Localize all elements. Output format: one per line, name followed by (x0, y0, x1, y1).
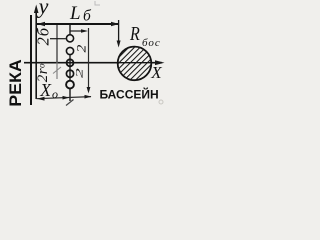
svg-text:б: б (83, 7, 92, 24)
svg-text:Х: Х (150, 63, 162, 82)
svg-text:у: у (37, 0, 49, 19)
svg-text:2: 2 (74, 68, 85, 78)
svg-text:2б: 2б (34, 27, 53, 46)
svg-text:L: L (69, 3, 81, 24)
svg-text:о: о (52, 87, 58, 101)
svg-text:2: 2 (75, 45, 89, 53)
svg-text:БАССЕЙН: БАССЕЙН (100, 87, 159, 102)
svg-text:R: R (129, 22, 140, 44)
svg-text:РЕКА: РЕКА (5, 59, 25, 107)
svg-text:бос: бос (142, 37, 161, 49)
